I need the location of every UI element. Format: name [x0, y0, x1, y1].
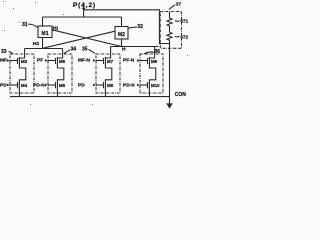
cell box 36 (dash-dot) — [140, 54, 163, 93]
input MF-N — [78, 57, 96, 63]
svg-text:PD: PD — [78, 83, 85, 89]
ground arrow — [166, 103, 172, 108]
transistor M8 — [96, 81, 114, 97]
svg-text:34: 34 — [71, 47, 77, 53]
svg-text:PF: PF — [37, 57, 43, 63]
transistor M5 — [48, 49, 66, 66]
svg-text:M5: M5 — [59, 59, 66, 64]
cell box 34 (dash-dot) — [48, 54, 72, 93]
transistor M6 — [48, 81, 66, 97]
dashed block 37 — [160, 12, 181, 49]
input PD — [0, 83, 10, 89]
wire chain bottom to rail corner — [169, 40, 171, 43]
wire chain top stub — [169, 12, 171, 18]
wire bottom rail — [10, 96, 170, 98]
transistor M7 — [96, 47, 114, 66]
label 32 — [128, 24, 143, 30]
input PD-N — [33, 83, 48, 89]
svg-text:372: 372 — [180, 35, 188, 41]
input PD-N — [123, 83, 140, 89]
node H2 label — [33, 41, 39, 47]
svg-text:PF-N: PF-N — [123, 57, 135, 63]
svg-text:M10: M10 — [151, 83, 160, 88]
wire P supply stem with up arrow — [82, 6, 86, 17]
svg-text:PD: PD — [0, 83, 7, 89]
transistor M4 — [10, 81, 28, 97]
svg-text:31: 31 — [22, 22, 28, 28]
label 35 — [82, 47, 95, 54]
transistor M3 — [10, 49, 28, 66]
svg-text:M6: M6 — [59, 83, 66, 88]
wire gate stub M1 — [52, 29, 54, 31]
label 33 — [1, 49, 13, 55]
cell box 33 (dash-dot) — [10, 54, 34, 93]
svg-text:371: 371 — [180, 18, 188, 24]
svg-text:32: 32 — [137, 24, 143, 30]
svg-text:35: 35 — [82, 47, 88, 53]
wire M7 source to M8 drain — [105, 65, 111, 81]
label 34 — [64, 47, 76, 54]
svg-text:M1: M1 — [41, 31, 48, 37]
transistor M10 — [140, 81, 160, 97]
svg-text:M9: M9 — [151, 59, 158, 64]
wire M9 source to M10 drain — [149, 65, 155, 81]
wire lower rail M1 to M2 — [43, 16, 122, 18]
svg-text:33: 33 — [1, 49, 7, 55]
svg-text:MF-N: MF-N — [78, 57, 91, 63]
transistor M1 — [38, 26, 52, 38]
label 371 — [175, 18, 189, 24]
label 372 — [175, 35, 189, 41]
svg-text:MF: MF — [0, 57, 7, 63]
svg-text:PD-N: PD-N — [123, 83, 135, 89]
svg-text:M8: M8 — [107, 83, 114, 88]
wire M2 source drop to H — [121, 39, 123, 47]
svg-text:H2: H2 — [33, 41, 39, 47]
svg-text:M3: M3 — [21, 59, 28, 64]
transistor M2 — [115, 27, 128, 40]
svg-text:M2: M2 — [118, 32, 125, 38]
wire cross diagonal B (H2 to gate of M2) — [43, 31, 116, 48]
node H label — [122, 47, 126, 53]
svg-text:37: 37 — [176, 1, 182, 7]
wire CON drop — [169, 44, 171, 105]
label 31 — [22, 22, 38, 28]
wire cross diagonal A (H1 to node H) — [52, 30, 122, 47]
input PD — [78, 83, 96, 89]
wire M5 source to M6 drain — [57, 65, 63, 81]
wire node H2 horizontal — [25, 48, 63, 50]
wire riser to M1 — [42, 17, 44, 26]
wire M1 source drop stub — [42, 38, 44, 49]
node H1 — [53, 26, 59, 31]
label 36 — [144, 49, 160, 55]
wire upper rail to block 37 — [84, 10, 170, 44]
resistor 372 — [167, 32, 172, 40]
svg-text:M4: M4 — [21, 83, 28, 88]
svg-text:PD-N: PD-N — [33, 83, 45, 89]
node P(4,2) label — [73, 2, 96, 9]
input MF — [0, 57, 10, 63]
wire riser to M2 — [121, 17, 123, 27]
svg-text:M7: M7 — [107, 59, 114, 64]
svg-text:CON: CON — [175, 92, 187, 98]
resistor 371 — [167, 18, 172, 26]
cell box 35 (dash-dot) — [96, 54, 120, 93]
wire M3 source to M4 drain — [19, 65, 25, 81]
node CON label — [175, 92, 187, 98]
scan noise specks — [3, 1, 188, 105]
label 37 — [169, 1, 181, 9]
svg-text:H: H — [122, 47, 126, 53]
wire node H horizontal — [111, 46, 159, 48]
input PF-N — [123, 57, 140, 63]
input PF — [37, 57, 48, 63]
wire between 371 and 372 — [169, 26, 171, 32]
transistor M9 — [140, 47, 158, 66]
